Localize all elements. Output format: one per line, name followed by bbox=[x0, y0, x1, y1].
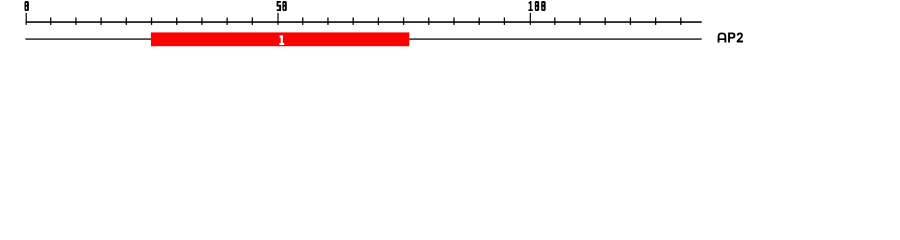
ruler label 100 bbox=[528, 1, 545, 11]
ruler label 0 bbox=[25, 1, 29, 11]
domain box 1 (red) bbox=[151, 32, 409, 46]
ruler major tick 50 bbox=[277, 13, 278, 25]
ruler axis line bbox=[25, 21, 701, 23]
ruler label 50 bbox=[277, 1, 287, 11]
domain number 1 bbox=[279, 35, 284, 45]
ruler major tick 0 bbox=[26, 13, 27, 25]
ruler minor ticks bbox=[50, 18, 681, 25]
ruler major tick 100 bbox=[530, 13, 531, 25]
label AP2 bbox=[718, 32, 743, 42]
sequence line bbox=[25, 38, 701, 39]
